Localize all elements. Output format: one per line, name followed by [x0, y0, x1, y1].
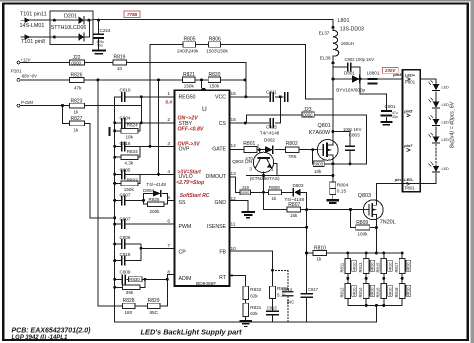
- svg-text:85C: 85C: [150, 310, 159, 315]
- wire GND pin12 to ground: [230, 201, 249, 212]
- resistor R813: [358, 258, 375, 273]
- svg-text:GATE: GATE: [212, 146, 226, 152]
- svg-text:+12V: +12V: [21, 57, 32, 62]
- svg-text:J22: J22: [73, 55, 81, 61]
- diode D804: [143, 182, 166, 196]
- svg-text:3: 3: [167, 141, 170, 147]
- IC pin 2 STBY / pin 15 CS: [167, 117, 236, 127]
- ground below R831: [240, 321, 251, 327]
- svg-text:4R30: 4R30: [388, 288, 392, 297]
- diode D802: [260, 131, 280, 154]
- wire FB pin10 down to R833 C813: [230, 251, 273, 322]
- svg-text:180: 180: [125, 310, 133, 315]
- svg-text:R822: R822: [127, 177, 138, 182]
- wire CP pin7 join: [141, 244, 175, 261]
- jumper J19: [240, 185, 251, 195]
- LED D1 of backlight string: [429, 80, 450, 90]
- svg-text:7N20L: 7N20L: [380, 220, 396, 226]
- svg-text:ON~>2V: ON~>2V: [178, 116, 199, 122]
- wire source node horizontal to J23 vertical: [333, 163, 366, 165]
- svg-text:47k: 47k: [74, 86, 82, 91]
- IC pin 1 REG50 / pin 16 VCC: [167, 91, 236, 101]
- wire Q803 source to bank rail: [375, 219, 377, 253]
- wire D801 output row: [333, 78, 403, 80]
- svg-text:LED: LED: [442, 103, 450, 107]
- junction dots Q803 area: [305, 226, 378, 255]
- wire C806 branch to CP: [115, 243, 141, 245]
- svg-text:R828: R828: [123, 298, 135, 304]
- svg-text:0.15: 0.15: [337, 189, 347, 195]
- IC pin 4 UVLO / pin 13 DIMOUT: [167, 169, 236, 180]
- svg-text:13: 13: [231, 171, 237, 177]
- capacitor C809: [120, 269, 131, 283]
- svg-text:pin7: pin7: [403, 143, 413, 148]
- svg-text:1k: 1k: [74, 127, 80, 132]
- svg-text:4R30: 4R30: [352, 288, 356, 297]
- wire C802 snubber branch: [333, 67, 360, 94]
- jumper J23: [302, 107, 314, 118]
- svg-text:<2.79'=Stop: <2.79'=Stop: [176, 180, 204, 186]
- wire R821 left rail down to UVLO pin4: [158, 80, 160, 174]
- svg-text:LED's BackLight Supply part: LED's BackLight Supply part: [141, 328, 243, 337]
- svg-text:2403\240k: 2403\240k: [177, 49, 199, 54]
- transistor Q801 MOSFET K7A60W: [309, 123, 338, 160]
- svg-text:R809: R809: [356, 220, 368, 226]
- LED D4 of backlight string: [429, 133, 450, 143]
- diode D201 dual rectifier in box: [50, 11, 93, 44]
- svg-text:PWM: PWM: [179, 224, 192, 230]
- svg-text:R832: R832: [250, 287, 261, 292]
- svg-text:pin5: pin5: [403, 108, 413, 113]
- wire R834 parallel branch: [115, 146, 140, 157]
- svg-text:STTH10LCD06: STTH10LCD06: [51, 25, 87, 31]
- svg-text:C814: C814: [282, 287, 293, 292]
- wire Q802 collector link: [274, 164, 277, 176]
- resistor R819: [113, 55, 127, 71]
- svg-text:R831: R831: [250, 305, 261, 310]
- capacitor C805: [120, 168, 131, 179]
- svg-text:11: 11: [231, 221, 236, 227]
- wire Q802 emitter stub down: [263, 172, 265, 192]
- capacitor C804: [120, 115, 131, 127]
- svg-text:J23: J23: [304, 107, 312, 113]
- resistor R803: [313, 161, 324, 174]
- svg-text:3: 3: [249, 167, 252, 173]
- wire R803 connections: [313, 150, 333, 164]
- svg-text:[NC: [NC: [287, 299, 294, 304]
- svg-text:R820: R820: [209, 72, 221, 78]
- wire sense vertical from D803 down to R810 node: [306, 192, 308, 253]
- svg-text:FB: FB: [219, 250, 226, 256]
- svg-text:D801: D801: [344, 70, 355, 75]
- svg-text:100k: 100k: [358, 231, 369, 236]
- svg-text:T101 pin11: T101 pin11: [20, 12, 47, 18]
- resistor R822: [121, 177, 138, 192]
- wire R822 parallel branch: [115, 174, 140, 183]
- svg-text:R811: R811: [340, 262, 345, 272]
- capacitor C814 not fitted: [282, 287, 294, 305]
- wire R824 parallel branch: [115, 123, 140, 131]
- node P-DIM: [17, 100, 33, 107]
- wire Q803 drain from LED return: [375, 183, 377, 200]
- svg-text:0000: 0000: [303, 112, 313, 117]
- resistor R812: [340, 283, 357, 298]
- svg-text:R817: R817: [394, 262, 399, 273]
- svg-text:R810: R810: [314, 245, 326, 251]
- svg-text:C803: C803: [349, 133, 360, 138]
- svg-text:REG50: REG50: [179, 95, 196, 101]
- svg-text:SoftStart RC: SoftStart RC: [180, 193, 210, 199]
- wire Q801 source down to R804: [332, 160, 334, 182]
- resistor R818: [394, 283, 411, 298]
- svg-text:12: 12: [231, 196, 237, 202]
- svg-text:L801: L801: [338, 18, 350, 24]
- svg-text:150k: 150k: [124, 187, 135, 192]
- svg-text:9: 9: [231, 273, 234, 279]
- svg-text:15k: 15k: [290, 213, 298, 218]
- svg-text:R816: R816: [376, 287, 381, 298]
- resistor R824: [121, 123, 138, 140]
- svg-text:D804: D804: [143, 188, 154, 193]
- svg-text:4R30: 4R30: [352, 263, 356, 272]
- svg-text:5.0: 5.0: [165, 100, 172, 106]
- svg-text:Q803: Q803: [358, 193, 371, 199]
- wire C817 branch: [306, 253, 308, 322]
- svg-text:LGP 3942 (I) -14PL1: LGP 3942 (I) -14PL1: [12, 335, 68, 341]
- svg-text:4.3k: 4.3k: [125, 161, 134, 166]
- svg-text:T4/~4148: T4/~4148: [260, 131, 280, 136]
- wire RT pin9 down to R832 R831: [230, 276, 246, 321]
- inductor L801: [319, 18, 364, 61]
- LED D3 of backlight string: [429, 115, 450, 125]
- svg-text:VCC: VCC: [215, 95, 226, 101]
- wire 39k branch: [115, 279, 145, 287]
- resistor R823: [69, 98, 84, 114]
- wire pin1 REG50 row through C810: [115, 96, 175, 98]
- resistor R805: [177, 37, 199, 54]
- wire R826 rail down to R828: [98, 80, 122, 306]
- wire pin3 OVP row through C816: [115, 145, 175, 147]
- svg-text:1k: 1k: [272, 196, 278, 201]
- wire pin6 PWM row through C807b: [115, 223, 175, 225]
- resistor R808: [269, 185, 282, 201]
- svg-text:1: 1: [167, 91, 170, 97]
- wire pin5 SS row through C807: [115, 199, 144, 201]
- svg-text:62k: 62k: [250, 311, 258, 316]
- wire DIMOUT pin13 to J19: [230, 177, 241, 192]
- capacitor C803: [343, 127, 362, 150]
- wire main HV line from D201 to L801 and down to Q801 drain: [93, 20, 333, 140]
- node +12V: [17, 57, 32, 63]
- svg-text:Q801: Q801: [318, 123, 331, 129]
- svg-text:ADIM: ADIM: [179, 276, 192, 282]
- svg-text:LED: LED: [442, 86, 450, 90]
- svg-text:R834: R834: [127, 149, 138, 154]
- wire bank bottom rail: [348, 305, 402, 322]
- resistor R811: [340, 258, 357, 273]
- svg-text:R806: R806: [209, 37, 221, 43]
- svg-text:R801: R801: [243, 141, 255, 147]
- svg-text:R830: R830: [129, 277, 140, 282]
- svg-text:33u: 33u: [392, 115, 398, 119]
- resistor R834: [121, 149, 138, 166]
- svg-text:R802: R802: [286, 141, 298, 147]
- ground below C224: [93, 51, 105, 54]
- svg-text:D201: D201: [64, 14, 77, 20]
- IC pin 6 PWM / pin 11 ISENSE: [167, 218, 235, 230]
- resistor R806: [206, 37, 228, 54]
- svg-text:7R5: 7R5: [288, 154, 297, 159]
- red callout box 7788: [124, 11, 140, 17]
- svg-text:pin1 LED-: pin1 LED-: [394, 177, 414, 182]
- svg-text:4R30: 4R30: [371, 263, 375, 272]
- svg-text:C813: C813: [267, 305, 278, 310]
- junction dots FB network: [271, 269, 274, 272]
- wire pin4 UVLO row through C805: [115, 173, 175, 175]
- IC pin 7 CP / pin 10 FB: [167, 243, 236, 256]
- svg-text:D803: D803: [293, 183, 304, 188]
- svg-text:L8801: L8801: [367, 70, 380, 75]
- svg-text:1503\150k: 1503\150k: [206, 49, 228, 54]
- LED D5 of backlight string: [429, 162, 450, 172]
- wire VCC pin16 row to C811: [230, 96, 284, 98]
- junction dots Q801 source area: [262, 130, 352, 177]
- red callout box 230V: [382, 67, 398, 73]
- svg-text:C815: C815: [266, 125, 277, 130]
- svg-text:R805: R805: [184, 37, 196, 43]
- wire bottom ground rail: [115, 321, 376, 323]
- resistor R807: [287, 202, 300, 218]
- junction dots pin network right side: [140, 78, 169, 280]
- svg-text:1k: 1k: [74, 110, 80, 115]
- wire R826 row to R821 R820: [19, 79, 246, 81]
- resistor R821: [183, 72, 195, 88]
- svg-text:100p 1KV: 100p 1KV: [343, 127, 362, 132]
- svg-text:150k: 150k: [184, 83, 195, 88]
- svg-text:4R30: 4R30: [388, 263, 392, 272]
- ground below C801: [381, 122, 391, 125]
- svg-text:R807: R807: [288, 202, 300, 208]
- svg-text:16: 16: [231, 91, 237, 97]
- svg-text:2: 2: [167, 117, 170, 123]
- resistor R829: [147, 298, 160, 315]
- svg-text:-88V~0V: -88V~0V: [21, 74, 39, 79]
- ground for GND pin12: [242, 212, 254, 218]
- svg-text:10: 10: [117, 66, 123, 71]
- svg-text:C817: C817: [308, 287, 319, 292]
- svg-text:C809: C809: [120, 269, 131, 274]
- wire R827 output down and right to C rail: [85, 123, 115, 218]
- svg-text:P801: P801: [405, 186, 416, 191]
- svg-text:R818: R818: [394, 287, 399, 298]
- svg-text:R827: R827: [71, 116, 83, 122]
- resistor R830: [129, 277, 143, 282]
- svg-text:14S-LM01: 14S-LM01: [20, 23, 45, 29]
- wire J19 to R808 to D803 node: [251, 191, 294, 193]
- wire T101 pin8 input row: [29, 20, 90, 37]
- svg-text:R819: R819: [114, 55, 126, 61]
- node T101 pin8 input arrow: [21, 34, 45, 45]
- svg-text:T4/~4148: T4/~4148: [285, 197, 305, 202]
- svg-text:LED+: LED+: [405, 72, 416, 77]
- wire node2 stub to Q802 base: [259, 150, 261, 153]
- wire CS pin15 row to C815: [230, 97, 281, 123]
- wire bank columns: [348, 253, 402, 305]
- wire Q802 collector rail to current sense node: [246, 175, 333, 177]
- svg-text:0000: 0000: [241, 190, 250, 195]
- svg-text:4: 4: [167, 169, 170, 175]
- transistor Q803 MOSFET 7N20L: [358, 193, 396, 226]
- svg-text:50u: 50u: [97, 44, 103, 48]
- svg-text:EL38: EL38: [320, 56, 331, 61]
- junction dots resistor bank: [346, 252, 403, 307]
- capacitor C816: [120, 141, 131, 151]
- LED D2 of backlight string: [429, 98, 450, 108]
- svg-text:8x(2x4) = 40pcs_6V: 8x(2x4) = 40pcs_6V: [450, 101, 456, 148]
- svg-text:RT: RT: [219, 275, 227, 281]
- svg-text:LED: LED: [442, 138, 450, 142]
- wire LED+ feed and LED string: [376, 79, 436, 183]
- capacitor beside C811: [285, 93, 288, 102]
- junction dots VCC CS rows: [244, 95, 282, 124]
- resistor R801: [243, 141, 257, 161]
- wire R810 row resistor bank top rail: [307, 252, 403, 254]
- svg-text:R814: R814: [358, 287, 363, 298]
- svg-text:P801: P801: [405, 79, 416, 84]
- svg-text:C801: C801: [385, 104, 396, 109]
- right scan gray strip: [470, 0, 474, 343]
- IC pin 3 OVP / pin 14 GATE: [167, 141, 236, 153]
- top scan gray strip: [0, 0, 474, 2]
- svg-text:10: 10: [231, 246, 237, 252]
- svg-text:U: U: [202, 106, 207, 113]
- svg-text:R824: R824: [127, 123, 138, 128]
- resistor R809: [356, 220, 370, 237]
- diode D803: [285, 183, 305, 202]
- svg-text:BD9486F: BD9486F: [196, 281, 216, 287]
- svg-text:14: 14: [231, 143, 237, 149]
- capacitor C818: [120, 252, 131, 265]
- svg-text:pin3: pin3: [392, 72, 402, 77]
- wire vertical J22 row to VCC row: [245, 63, 247, 97]
- wire pin2 STBY row through C804: [115, 122, 175, 124]
- resistor R825: [148, 197, 165, 214]
- svg-text:7788: 7788: [127, 12, 138, 17]
- svg-text:0000: 0000: [71, 61, 81, 66]
- capacitor C802: [345, 57, 375, 71]
- wire C809 R830 row to pin8: [115, 278, 168, 280]
- wire P-DIM branch to R827: [63, 106, 70, 124]
- wire D804 R825 parallel loop to pin5: [144, 193, 175, 204]
- svg-text:R812: R812: [340, 287, 345, 298]
- wire T101 pin11 input row: [29, 19, 93, 21]
- svg-text:10k: 10k: [126, 134, 134, 139]
- svg-text:4R30: 4R30: [407, 263, 411, 272]
- node T101 pin11 input arrow: [20, 12, 47, 23]
- wire R805 R806 row with verticals to OVP pin3 and to drain: [150, 45, 333, 147]
- svg-text:C811: C811: [266, 89, 277, 94]
- svg-text:15: 15: [231, 117, 237, 123]
- resistor 39k below R830: [122, 285, 140, 295]
- svg-text:OVP->3V: OVP->3V: [178, 142, 201, 148]
- capacitor C807 pin5: [120, 193, 131, 205]
- wire vertical pin1 node to pin2 row: [140, 97, 142, 123]
- svg-text:SS: SS: [179, 200, 186, 206]
- svg-text:C802 100p 1KV: C802 100p 1KV: [345, 57, 375, 62]
- svg-text:J19: J19: [242, 185, 250, 190]
- ground below R804: [327, 200, 338, 203]
- resistor R820: [208, 72, 221, 88]
- capacitor C811: [266, 89, 277, 101]
- svg-text:160uH: 160uH: [341, 41, 354, 46]
- svg-text:T101 pin8: T101 pin8: [21, 39, 45, 45]
- capacitor C807 pin6: [120, 216, 131, 228]
- svg-text:R829: R829: [148, 298, 160, 304]
- resistor R814: [358, 283, 375, 298]
- svg-text:D802: D802: [264, 137, 275, 142]
- svg-text:R825: R825: [149, 197, 160, 202]
- jumper J22: [69, 55, 84, 66]
- svg-text:Q802 (2N: Q802 (2N: [232, 159, 252, 164]
- wire R828 R829 row: [135, 305, 167, 307]
- resistor R816: [376, 283, 393, 298]
- svg-text:R813: R813: [358, 262, 363, 273]
- svg-text:R823: R823: [71, 98, 83, 104]
- junction dots L801 node: [332, 26, 362, 81]
- svg-text:62k: 62k: [250, 293, 258, 298]
- svg-text:EL37: EL37: [319, 30, 330, 35]
- capacitor C810: [120, 88, 131, 101]
- wire C818 branch to CP: [115, 260, 141, 262]
- resistor R815: [376, 258, 393, 273]
- svg-text:DIMOUT: DIMOUT: [206, 174, 227, 180]
- svg-text:PCB: EAX65423701(2.0): PCB: EAX65423701(2.0): [12, 327, 92, 334]
- wire LED string dashed section: [435, 144, 437, 165]
- svg-text:R804: R804: [337, 182, 349, 188]
- svg-text:6: 6: [167, 218, 170, 224]
- wire pin8 ADIM connection: [167, 274, 174, 306]
- IC pin 5 SS / pin 12 GND: [167, 195, 236, 206]
- svg-text:8: 8: [167, 269, 170, 275]
- svg-text:P-DIM: P-DIM: [21, 100, 33, 105]
- svg-text:R826: R826: [71, 73, 83, 79]
- svg-text:150k: 150k: [209, 83, 220, 88]
- junction dots DIMOUT chain: [262, 191, 352, 229]
- svg-text:CS: CS: [219, 121, 227, 127]
- svg-text:BYV10X/600p: BYV10X/600p: [336, 88, 365, 93]
- svg-text:P201: P201: [11, 68, 22, 73]
- resistor R828: [122, 298, 135, 315]
- resistor R827: [69, 116, 84, 132]
- svg-text:T4/~4148: T4/~4148: [146, 182, 166, 187]
- wire C224 branch: [98, 20, 100, 49]
- svg-text:10k: 10k: [314, 169, 322, 174]
- capacitor C801: [382, 104, 398, 119]
- resistor R802: [286, 141, 299, 159]
- svg-text:CP: CP: [179, 250, 187, 256]
- wire NC dotted branch to C814: [273, 270, 288, 322]
- capacitor C815: [266, 119, 277, 130]
- resistor R833: [270, 286, 289, 298]
- svg-text:LED: LED: [442, 167, 450, 171]
- resistor R804 current sense: [330, 182, 349, 199]
- wire R807 branch to Q803 gate: [263, 192, 363, 209]
- wire P-DIM R823 row: [19, 105, 142, 107]
- junction dots R821 R820 row: [200, 78, 247, 98]
- wire C801 branch: [360, 94, 386, 121]
- svg-text:>3V=Start: >3V=Start: [178, 170, 202, 176]
- resistor R810: [313, 245, 327, 261]
